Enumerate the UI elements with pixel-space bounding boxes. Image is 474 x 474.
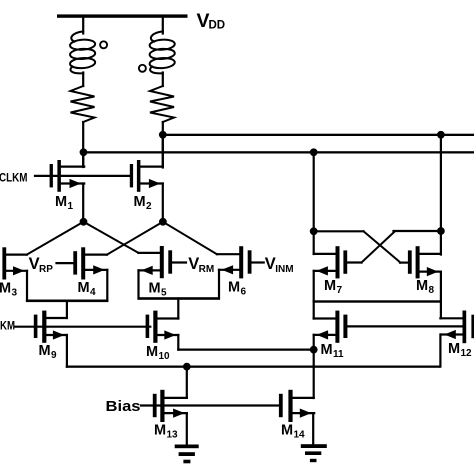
- resistor R2: [150, 86, 174, 122]
- wire right branch top: [162, 18, 164, 34]
- wire M7-M8 source rail: [313, 300, 442, 302]
- transistor M10: [146, 311, 179, 362]
- svg-text:12: 12: [461, 348, 473, 359]
- wire CLKM gate line M1 M2: [35, 175, 130, 177]
- svg-text:DD: DD: [209, 20, 226, 32]
- transistor M4: [57, 247, 108, 300]
- svg-text:INM: INM: [275, 264, 293, 275]
- transistor M14: [279, 390, 314, 445]
- junction dot M1 source node: [80, 218, 88, 226]
- wire diagonal M1src to M5 drain: [84, 222, 139, 253]
- junction dot OUTM-left: [159, 131, 167, 139]
- wire L2 to R2: [162, 73, 164, 87]
- transistor M9: [34, 311, 67, 367]
- transistor M12: [440, 311, 474, 367]
- svg-text:RP: RP: [39, 264, 53, 275]
- node VDD label: [197, 10, 226, 32]
- junction dot OUTP-left: [80, 148, 88, 156]
- junction dot M7 drain node: [310, 227, 318, 235]
- wire M3-M4 source rail: [26, 300, 109, 303]
- svg-text:V: V: [188, 255, 199, 273]
- svg-text:8: 8: [429, 285, 435, 296]
- junction dot M8 drain node: [437, 227, 445, 235]
- wire R1 to OUTP rail and M1 drain: [82, 122, 84, 167]
- junction dot tail-M13: [183, 363, 191, 371]
- node VRM label: [188, 255, 214, 275]
- svg-text:M: M: [149, 281, 161, 297]
- wire M7 gate cross link horizontal: [394, 230, 441, 232]
- svg-text:6: 6: [241, 287, 247, 298]
- wire M7 source down to M11 drain: [313, 271, 315, 319]
- node VINM label: [265, 255, 294, 275]
- svg-text:3: 3: [12, 288, 18, 299]
- polarity dot L2: [139, 65, 146, 72]
- transistor M6: [217, 246, 264, 298]
- wire OUTP to M7 drain node: [313, 152, 315, 254]
- wire CLKM gate line M9 M10: [15, 326, 150, 328]
- transistor M11: [314, 311, 463, 398]
- inductor L1: [70, 31, 96, 73]
- wire diagonal M2src to M4 drain: [107, 222, 163, 255]
- svg-text:Bias: Bias: [106, 399, 141, 415]
- transistor M2: [130, 135, 163, 222]
- svg-text:5: 5: [161, 288, 167, 299]
- inductor L2: [149, 31, 175, 73]
- wire left branch top: [82, 18, 84, 34]
- ground M14: [301, 444, 327, 462]
- wire L1 to R1: [82, 73, 84, 87]
- junction dot OUTM-M8: [437, 131, 445, 139]
- svg-text:M: M: [55, 194, 67, 210]
- wire M8 source down to M12 drain: [440, 272, 442, 319]
- wire long tail rail: [66, 366, 441, 368]
- svg-text:M: M: [0, 281, 11, 297]
- svg-text:V: V: [265, 255, 276, 273]
- transistor M7: [314, 246, 362, 296]
- transistor M3: [0, 247, 27, 300]
- transistor M13: [153, 367, 187, 445]
- svg-text:M: M: [324, 278, 336, 294]
- wire diagonal M2src to M6 drain: [163, 222, 217, 254]
- svg-text:M: M: [134, 194, 146, 210]
- transistor M8: [400, 246, 441, 296]
- resistor R1: [71, 86, 95, 122]
- node Bias label: [106, 399, 141, 415]
- wire R2 to OUTM rail and M2 drain: [162, 122, 164, 168]
- svg-text:4: 4: [90, 287, 96, 298]
- svg-text:7: 7: [337, 285, 343, 296]
- svg-text:RM: RM: [199, 264, 215, 275]
- svg-text:CLKM: CLKM: [0, 171, 28, 185]
- svg-text:M: M: [39, 343, 51, 359]
- svg-text:13: 13: [167, 430, 179, 441]
- wire M10 source to M11 source node: [178, 349, 313, 351]
- transistor M5: [139, 246, 187, 299]
- svg-text:10: 10: [159, 351, 171, 362]
- transistor M1: [50, 152, 85, 222]
- wire M7 gate cross link diagonal: [362, 232, 395, 263]
- svg-text:2: 2: [146, 201, 152, 212]
- wire diagonal M1src to M3 drain: [27, 222, 84, 255]
- svg-text:M: M: [281, 423, 293, 439]
- wire Bias gate line M13 M14: [141, 404, 279, 406]
- wire M8 gate cross link horizontal: [314, 230, 364, 232]
- svg-text:M: M: [416, 278, 428, 294]
- svg-text:M: M: [228, 280, 240, 296]
- junction dot M11 source node: [310, 346, 318, 354]
- polarity dot L1: [100, 41, 107, 48]
- svg-text:M: M: [321, 342, 333, 358]
- svg-text:KM: KM: [0, 319, 15, 333]
- junction dot M2 source node: [159, 218, 167, 226]
- node CLKM label bottom: [0, 319, 15, 333]
- svg-text:14: 14: [294, 430, 306, 441]
- wire OUTM to M8 drain node: [440, 135, 442, 255]
- svg-text:M: M: [154, 423, 166, 439]
- svg-text:1: 1: [68, 201, 74, 212]
- svg-text:M: M: [78, 280, 90, 296]
- wire M5-M6 source rail: [138, 297, 221, 300]
- node VRP label: [29, 255, 54, 275]
- ground M13: [175, 445, 199, 464]
- node OUTM rail: [162, 134, 474, 136]
- node OUTP rail: [82, 151, 474, 153]
- wire tap rail to M10 drain: [177, 299, 179, 319]
- junction dot OUTP-M7: [310, 148, 318, 156]
- svg-text:11: 11: [333, 349, 344, 360]
- svg-text:M: M: [448, 341, 460, 357]
- svg-text:9: 9: [51, 350, 57, 361]
- VDD rail: [57, 14, 188, 17]
- node CLKM label top: [0, 171, 28, 185]
- wire tap rail to M9 drain: [66, 301, 68, 318]
- wire M8 gate cross link diagonal: [364, 231, 401, 262]
- svg-text:M: M: [146, 344, 158, 360]
- svg-text:V: V: [29, 255, 40, 273]
